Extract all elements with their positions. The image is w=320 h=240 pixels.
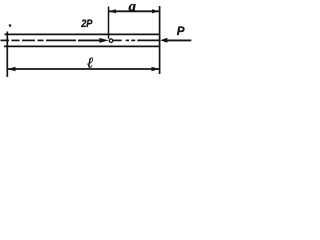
bar top edge (5, 33, 160, 35)
dimension a right arrowhead (152, 9, 159, 13)
node circle 2P application point (109, 39, 113, 43)
centerline dash-dot left of node (1, 39, 77, 41)
force P shaft (166, 39, 191, 41)
bar bottom edge (4, 45, 160, 47)
bar right edge / extension line (159, 6, 161, 74)
centerline dash-dot right of node (113, 39, 159, 41)
dimension a extension line (108, 7, 110, 39)
dimension a line (109, 10, 160, 12)
svg-text:a: a (129, 0, 137, 15)
bar left edge (6, 32, 8, 78)
speck artifact top left (8, 24, 11, 27)
svg-text:ℓ: ℓ (87, 55, 93, 71)
dimension l left arrowhead (8, 67, 16, 72)
force P arrowhead (160, 38, 167, 43)
dimension a left arrowhead (109, 9, 116, 13)
dimension l right arrowhead (152, 67, 160, 72)
force 2P shaft (78, 39, 101, 41)
svg-text:P: P (177, 25, 185, 38)
svg-text:2P: 2P (80, 18, 92, 30)
force 2P arrowhead (99, 38, 108, 43)
dimension l line (8, 68, 160, 70)
